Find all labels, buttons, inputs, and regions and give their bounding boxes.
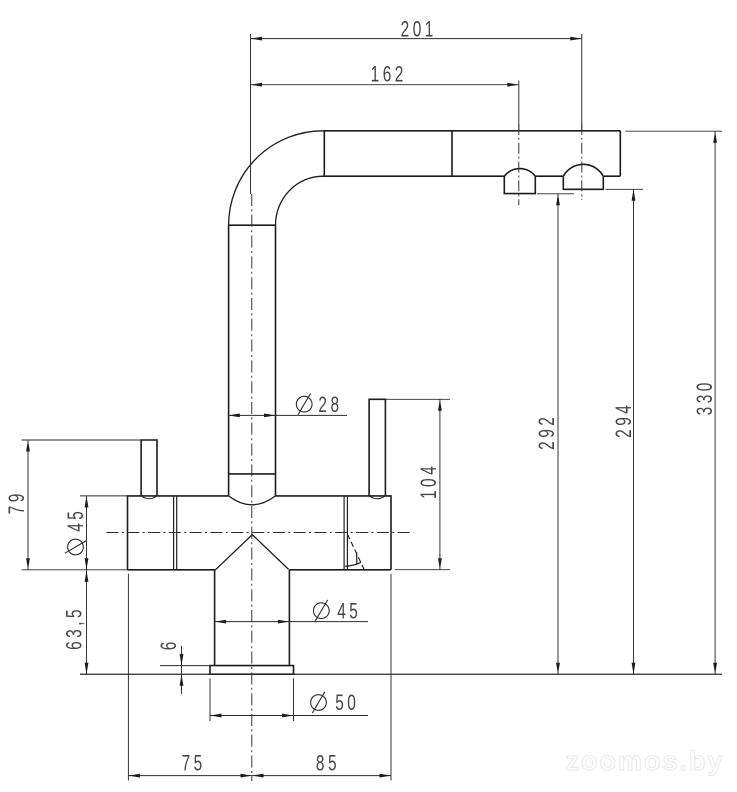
svg-text:50: 50	[335, 691, 359, 715]
extension 292 top	[537, 193, 574, 195]
dim text 294	[612, 402, 636, 438]
funnel bowl arc	[229, 496, 276, 505]
svg-text:45: 45	[337, 600, 361, 624]
arrowheads 201	[251, 37, 263, 41]
extension body bottom left	[22, 569, 128, 571]
svg-text:75: 75	[182, 752, 206, 776]
extension 79 top	[22, 439, 142, 441]
diameter symbol for 50	[311, 692, 327, 713]
extension 85 right	[390, 574, 392, 781]
aerator nozzle 1 body	[504, 176, 535, 193]
extension line nozzle2	[581, 34, 583, 131]
spout right end edge	[619, 131, 621, 176]
riser pipe left edge	[228, 225, 230, 496]
riser pipe right edge	[275, 225, 277, 496]
lever tip vertical line	[356, 552, 358, 563]
riser joint upper	[229, 224, 276, 226]
valve body outline	[128, 496, 392, 570]
svg-text:330: 330	[693, 379, 717, 415]
arrowheads 292	[556, 194, 560, 206]
svg-text:63,5: 63,5	[63, 606, 87, 650]
dimension diam45 mid line	[215, 621, 368, 623]
extension 330 top	[625, 130, 722, 132]
svg-text:zoomos.by: zoomos.by	[565, 746, 724, 776]
extension 104 bottom	[395, 569, 450, 571]
svg-text:294: 294	[612, 402, 636, 438]
diameter symbol for 45 left	[65, 539, 86, 555]
riser joint lower	[229, 473, 276, 475]
right cap joint double line	[344, 496, 347, 570]
dim text 104	[418, 463, 442, 499]
svg-text:28: 28	[318, 394, 342, 418]
lever arc on right cap	[345, 562, 361, 566]
svg-text:85: 85	[316, 752, 340, 776]
svg-text:104: 104	[418, 463, 442, 499]
lever diagonal dashed on right cap	[347, 534, 364, 569]
arrowheads 104	[438, 399, 442, 411]
dim text 201	[401, 18, 437, 42]
dim text diam45 left digits	[64, 508, 88, 532]
extension line left of 201/162	[250, 34, 252, 194]
svg-text:79: 79	[5, 490, 29, 514]
dim text 6	[157, 638, 181, 650]
dimension 79 line	[27, 440, 29, 570]
aerator nozzle 2 body	[563, 176, 603, 189]
dimension 294 line	[633, 189, 635, 674]
arrowheads 6 outside	[180, 654, 184, 666]
dimension 201 line	[251, 38, 582, 40]
spout joint at bend	[323, 131, 325, 176]
svg-text:292: 292	[535, 414, 559, 450]
dimension 104 line	[439, 399, 441, 569]
dim text 292	[535, 414, 559, 450]
left handle base ellipse	[141, 496, 157, 499]
dimension diam45 left line	[86, 496, 88, 570]
diameter symbol for 28	[296, 393, 312, 414]
counter mounting surface line	[80, 673, 722, 675]
svg-text:45: 45	[64, 508, 88, 532]
arrowheads diam45 left	[85, 496, 89, 508]
dim text diam50 digits	[335, 691, 359, 715]
centerline riser vertical	[251, 194, 253, 781]
arrowheads 63.5	[85, 570, 89, 582]
arrowheads 294	[632, 189, 636, 201]
extension 104 top	[385, 398, 450, 400]
down tube left edge	[214, 570, 216, 666]
dimension 75-85 line	[128, 775, 391, 777]
extension diam50 left	[209, 678, 211, 721]
dimension diam50 line	[210, 715, 368, 717]
down tube right edge	[288, 570, 290, 666]
arrowheads 330	[713, 131, 717, 143]
svg-text:6: 6	[157, 638, 181, 650]
spout top line	[323, 130, 620, 132]
dim text 162	[371, 63, 407, 87]
arrowheads diam45 mid	[215, 620, 227, 624]
spout bottom line	[323, 175, 504, 177]
arrowheads 75	[128, 774, 140, 778]
centerline nozzle1	[518, 124, 520, 205]
spout bottom between nozzles	[535, 175, 563, 177]
dim text 75	[182, 752, 206, 776]
dimension 162 line	[251, 84, 519, 86]
dimension 6 line	[181, 646, 183, 694]
dim text 79	[5, 490, 29, 514]
arrowheads diam28	[228, 414, 240, 418]
dimension 330 line	[714, 131, 716, 674]
arrowheads 85	[252, 774, 264, 778]
dimension diam28 line	[228, 414, 347, 416]
centerline body horizontal	[106, 532, 413, 534]
left handle cylinder	[141, 440, 157, 496]
base flange	[210, 666, 294, 675]
dimension 63.5 line	[86, 570, 88, 674]
dim text 330	[693, 379, 717, 415]
spout joint mid	[451, 131, 453, 176]
extension 6 left	[160, 665, 210, 667]
diameter symbol for 45 mid	[313, 600, 329, 621]
arrowheads 79	[26, 440, 30, 452]
arrowheads diam50	[210, 714, 222, 718]
right handle cylinder	[369, 399, 385, 496]
dim text 85	[316, 752, 340, 776]
dim text 28	[318, 394, 342, 418]
spout inner bend arc	[276, 176, 324, 225]
dimension 292 line	[557, 194, 559, 674]
centerline nozzle2	[581, 124, 583, 200]
aerator nozzle 1 dome	[504, 169, 535, 177]
svg-text:201: 201	[401, 18, 437, 42]
svg-text:162: 162	[371, 63, 407, 87]
cone V inside body	[215, 535, 289, 571]
extension diam50 right	[293, 678, 295, 721]
extension 75 left	[127, 574, 129, 781]
dim text diam45 mid digits	[337, 600, 361, 624]
flange bottom thick segment	[209, 673, 296, 675]
valve body bottom line	[128, 569, 392, 571]
extension diam45 left top	[80, 495, 128, 497]
dim text 63,5	[63, 606, 87, 650]
spout outer bend arc	[229, 131, 323, 225]
aerator nozzle 2 dome	[563, 164, 603, 176]
right handle base ellipse	[369, 496, 385, 499]
left cap joint double line	[174, 496, 177, 570]
extension line nozzle1	[518, 81, 520, 132]
spout bottom right segment	[603, 175, 620, 177]
extension 294 top	[606, 188, 644, 190]
arrowheads 162	[251, 83, 263, 87]
